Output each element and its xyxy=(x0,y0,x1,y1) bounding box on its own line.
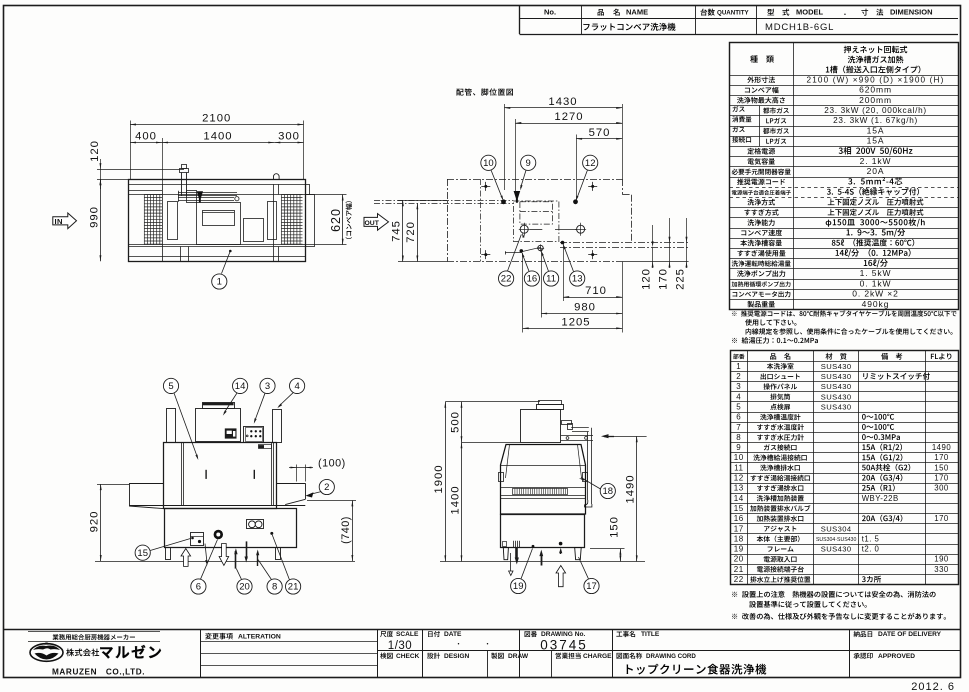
svg-text:TITLE: TITLE xyxy=(641,631,660,638)
svg-text:13: 13 xyxy=(734,484,744,493)
spec row kind label xyxy=(750,55,758,62)
IN arrow xyxy=(53,213,77,229)
company name xyxy=(66,649,99,657)
piping point 16 dot xyxy=(520,249,524,253)
piping point 13 dot xyxy=(561,241,565,245)
spec table gas sub column line xyxy=(759,106,761,147)
OUT arrow xyxy=(364,214,389,231)
svg-text:4: 4 xyxy=(294,381,299,392)
svg-text:7: 7 xyxy=(736,423,741,432)
plan view exit hatch xyxy=(281,195,302,245)
svg-text:17: 17 xyxy=(734,524,744,533)
svg-text:DESIGN: DESIGN xyxy=(444,653,470,660)
plan view left inner rect xyxy=(168,202,178,240)
side view balloon 18 xyxy=(600,483,615,498)
plan view section line left 400 xyxy=(162,184,164,261)
svg-text:16: 16 xyxy=(734,514,744,523)
side view lower body xyxy=(501,515,585,548)
svg-text:2: 2 xyxy=(324,482,329,493)
parts table rows xyxy=(731,371,959,373)
side view drain arrow down filled xyxy=(515,548,518,559)
alteration label xyxy=(205,633,233,640)
piping connection circle right xyxy=(577,225,585,233)
side view dim 1900 xyxy=(445,401,540,403)
side view dim 150 xyxy=(590,548,625,550)
plan view wash chamber inner rect xyxy=(203,211,235,226)
side view drain arrow down open xyxy=(510,553,512,571)
svg-text:IN: IN xyxy=(55,217,63,226)
front view door slot marks xyxy=(205,470,206,479)
dim 745 left xyxy=(398,200,447,202)
plan view right small rect xyxy=(244,219,264,242)
svg-text:10: 10 xyxy=(734,453,744,462)
svg-text:1490: 1490 xyxy=(625,474,637,503)
side view pipe run lower xyxy=(561,435,593,437)
alteration cell rows xyxy=(200,641,377,643)
svg-text:990: 990 xyxy=(89,206,101,228)
front view balloon 15 xyxy=(135,545,150,560)
svg-text:19: 19 xyxy=(513,581,524,592)
plan view left section band line xyxy=(129,190,163,192)
svg-text:300: 300 xyxy=(278,131,300,143)
design label xyxy=(427,653,440,659)
parts table column lines xyxy=(747,351,749,585)
svg-text:1270: 1270 xyxy=(554,111,583,123)
svg-text:710: 710 xyxy=(585,285,607,297)
svg-text:CHECK: CHECK xyxy=(396,653,420,660)
svg-text:23. 3kW (20, 000kcal/h): 23. 3kW (20, 000kcal/h) xyxy=(824,106,927,115)
spec gas group labels xyxy=(732,106,744,112)
piping connection link line xyxy=(530,229,543,231)
piping leg cross bottom-left xyxy=(481,254,490,256)
piping entrance strip chain lines xyxy=(374,200,513,202)
svg-text:20: 20 xyxy=(239,582,250,593)
svg-text:13: 13 xyxy=(572,274,583,285)
dim 990 left xyxy=(100,179,102,261)
side view hood top detail xyxy=(539,401,562,405)
svg-text:745: 745 xyxy=(391,220,403,242)
svg-text:15A: 15A xyxy=(867,125,885,135)
front view balloon 6 xyxy=(191,579,206,594)
plan view valve filled xyxy=(197,191,203,202)
side view dim 500 xyxy=(461,402,463,442)
svg-text:150: 150 xyxy=(608,516,620,538)
piping leg cross top-right xyxy=(588,186,597,188)
header label MODEL DIMENSION xyxy=(767,9,774,16)
svg-text:2100: 2100 xyxy=(202,113,231,125)
front view dim 920 xyxy=(97,484,129,486)
front view small label under panel xyxy=(259,445,272,449)
svg-text:DATE: DATE xyxy=(444,631,462,638)
balloon 10 xyxy=(481,155,496,170)
front view hood display xyxy=(225,428,237,438)
dim 1270 xyxy=(515,119,517,192)
front view dim 740 xyxy=(307,500,356,502)
svg-text:15A: 15A xyxy=(867,136,885,146)
front view right wing xyxy=(277,483,306,485)
plan view right side tab xyxy=(306,185,310,195)
svg-text:400: 400 xyxy=(135,131,157,143)
svg-text:8: 8 xyxy=(272,582,277,593)
svg-text:CHARGE: CHARGE xyxy=(583,653,612,660)
svg-text:170: 170 xyxy=(658,268,670,290)
svg-text:620mm: 620mm xyxy=(859,85,892,95)
front view balloon 2 xyxy=(319,479,334,494)
svg-text:21: 21 xyxy=(734,565,744,574)
svg-text:23. 3kW (1. 67kg/h): 23. 3kW (1. 67kg/h) xyxy=(833,116,918,125)
balloon 12 xyxy=(583,155,598,170)
balloon 16 xyxy=(524,271,539,286)
front view balloon 3 xyxy=(260,378,275,393)
side view dim 1490 xyxy=(614,436,647,438)
svg-text:170: 170 xyxy=(934,474,949,483)
dim 2100 xyxy=(130,121,132,180)
piping section chain line 400 xyxy=(480,179,482,262)
side view balloon 19 xyxy=(511,578,526,593)
parts table header labels xyxy=(733,354,744,359)
piping bottom connection line xyxy=(505,252,522,254)
svg-text:DIMENSION: DIMENSION xyxy=(890,8,933,17)
svg-text:MODEL: MODEL xyxy=(796,8,824,17)
svg-text:12: 12 xyxy=(585,158,596,169)
svg-text:DATE OF DELIVERY: DATE OF DELIVERY xyxy=(878,631,942,638)
svg-text:9: 9 xyxy=(736,443,741,452)
svg-text:t1. 5: t1. 5 xyxy=(862,534,880,543)
svg-text:2. 1kW: 2. 1kW xyxy=(860,156,892,166)
svg-text:10: 10 xyxy=(483,158,494,169)
svg-text:2100 (W) ×990 (D) ×1900 (H): 2100 (W) ×990 (D) ×1900 (H) xyxy=(807,75,945,84)
dim 720 left xyxy=(417,203,419,261)
svg-text:720: 720 xyxy=(405,221,417,243)
svg-text:1430: 1430 xyxy=(548,96,577,108)
balloon 9 xyxy=(521,155,536,170)
svg-text:2: 2 xyxy=(736,372,741,381)
svg-text:SUS430: SUS430 xyxy=(821,402,852,411)
spec table outer frame xyxy=(730,43,959,310)
title block inner verticals lower row xyxy=(487,651,489,678)
dim 710 xyxy=(563,244,565,302)
parts table notes xyxy=(732,591,936,598)
svg-text:14: 14 xyxy=(235,381,246,392)
svg-text:1900: 1900 xyxy=(433,464,445,493)
svg-text:1/30: 1/30 xyxy=(388,640,412,652)
plan view bottom band lines xyxy=(129,246,306,248)
front view hood cap xyxy=(203,403,235,409)
svg-text:20: 20 xyxy=(734,555,744,564)
front view left wing xyxy=(129,483,164,485)
dim 400 1400 300 xyxy=(162,138,164,185)
draw label xyxy=(491,653,503,659)
svg-text:1400: 1400 xyxy=(203,131,232,143)
plan view section line right 300 xyxy=(273,184,275,261)
check label xyxy=(380,653,393,659)
svg-text:120: 120 xyxy=(641,268,653,290)
side view ground chain line xyxy=(440,561,645,563)
front view left leg xyxy=(166,548,171,560)
front view balloon 14 xyxy=(233,378,248,393)
front view body upper xyxy=(164,443,277,509)
piping outline right step xyxy=(623,194,631,196)
svg-text:APPROVED: APPROVED xyxy=(878,653,915,660)
scale label and value xyxy=(380,631,393,637)
side view right foot xyxy=(575,548,582,560)
svg-text:5: 5 xyxy=(168,381,173,392)
dim 570 xyxy=(576,135,578,201)
plan view pipe end circle xyxy=(235,197,239,201)
svg-text:3: 3 xyxy=(736,382,741,391)
front view body inner wall lines xyxy=(181,443,183,506)
svg-text:12: 12 xyxy=(734,474,744,483)
front view table bottom line full width xyxy=(129,505,305,507)
svg-text:980: 980 xyxy=(574,302,596,314)
piping view title xyxy=(456,88,513,95)
plan view vent gooseneck xyxy=(274,174,280,179)
svg-text:570: 570 xyxy=(589,127,611,139)
svg-text:300: 300 xyxy=(934,484,949,493)
header label NAME xyxy=(598,9,604,16)
side view pipe bottom hook xyxy=(585,500,592,507)
side view balloon 17 xyxy=(584,578,599,593)
svg-text:MARUZEN CO.,LTD.: MARUZEN CO.,LTD. xyxy=(52,668,145,677)
piping leg cross bottom-right xyxy=(588,254,597,256)
piping outline rect xyxy=(447,179,623,181)
front view dim 100 xyxy=(296,465,298,482)
spec row labels xyxy=(747,76,775,83)
svg-text:・: ・ xyxy=(484,641,491,648)
svg-text:120: 120 xyxy=(89,140,101,162)
plan view top band line xyxy=(129,184,306,186)
balloon 11 xyxy=(544,271,559,286)
svg-text:22: 22 xyxy=(734,575,744,584)
svg-text:5: 5 xyxy=(736,402,741,411)
spec kind value 3 lines xyxy=(844,46,908,53)
svg-text:11: 11 xyxy=(546,274,556,285)
side view pipe step elbow xyxy=(562,421,572,425)
piping point 12 dot xyxy=(573,199,578,204)
balloon 22 xyxy=(499,271,514,286)
side view small latch box xyxy=(503,542,507,547)
svg-text:t2. 0: t2. 0 xyxy=(862,545,880,554)
plan view pipe manifold xyxy=(178,192,237,194)
svg-text:1: 1 xyxy=(736,362,741,371)
front view control panel xyxy=(244,427,264,443)
dim 120 left xyxy=(97,169,184,171)
parts table header row line xyxy=(731,361,959,363)
side view drain pipes left xyxy=(513,541,515,548)
title block top line xyxy=(3,629,960,631)
svg-text:No.: No. xyxy=(544,8,556,17)
plan view bottom band feet lines xyxy=(180,247,182,262)
title block verticals xyxy=(200,629,202,678)
piping tank rect chain xyxy=(513,201,559,242)
plan view conveyor strip bottom line xyxy=(129,244,315,246)
svg-text:225: 225 xyxy=(675,268,687,290)
svg-text:2012. 6: 2012. 6 xyxy=(911,681,955,692)
piping exit strip chain lines xyxy=(560,242,689,244)
svg-text:SUS430: SUS430 xyxy=(821,382,852,391)
svg-text:920: 920 xyxy=(88,511,100,533)
svg-text:WBY-22B: WBY-22B xyxy=(862,494,899,503)
front view arrows under machine xyxy=(181,549,191,567)
svg-text:150: 150 xyxy=(934,463,949,472)
side view arrow up filled xyxy=(541,554,543,566)
side view arrow up open xyxy=(556,566,566,587)
svg-text:19: 19 xyxy=(734,545,744,554)
plan view wash chamber rect xyxy=(197,203,241,245)
side view conveyor window band xyxy=(501,487,586,489)
svg-text:21: 21 xyxy=(288,582,299,593)
front view balloon 5 xyxy=(163,378,178,393)
front view hood box xyxy=(196,409,241,442)
maruzen logo emblem xyxy=(30,644,63,662)
svg-text:170: 170 xyxy=(934,453,949,462)
dim 620 conveyor width xyxy=(314,194,346,196)
svg-text:4: 4 xyxy=(736,392,741,401)
side view drain dot and arrow xyxy=(559,542,563,546)
maker slogan xyxy=(53,634,135,640)
svg-text:20A: 20A xyxy=(867,166,885,176)
balloon 13 xyxy=(570,271,585,286)
spec notes xyxy=(732,310,957,316)
dim 980 xyxy=(541,249,543,318)
drawing number label and value xyxy=(525,631,538,637)
svg-text:1400: 1400 xyxy=(449,485,461,514)
svg-text:18: 18 xyxy=(734,534,744,543)
svg-text:・: ・ xyxy=(455,641,462,648)
drawing name label and value xyxy=(617,653,643,659)
svg-text:620: 620 xyxy=(329,208,343,232)
front view ground line xyxy=(95,561,355,563)
svg-text:16: 16 xyxy=(527,274,538,285)
svg-text:14: 14 xyxy=(734,494,744,503)
svg-text:QUANTITY: QUANTITY xyxy=(717,10,749,17)
svg-text:500: 500 xyxy=(449,411,461,433)
side view left handle tab xyxy=(499,473,504,482)
svg-text:SUS430: SUS430 xyxy=(821,545,852,554)
svg-text:03745: 03745 xyxy=(540,638,588,653)
side view left foot xyxy=(503,548,508,560)
front view left duct xyxy=(167,409,176,443)
plan view exit extension box xyxy=(306,195,315,247)
side view hood box xyxy=(521,410,561,443)
title block middle line xyxy=(377,650,960,652)
front view balloon 21 xyxy=(286,579,301,594)
balloon 1 xyxy=(229,250,232,253)
svg-text:490kg: 490kg xyxy=(862,299,890,309)
dim 1430 xyxy=(504,104,506,190)
svg-text:3: 3 xyxy=(265,381,270,392)
side view vertical pipes xyxy=(587,432,589,500)
side view conveyor window hatch xyxy=(513,489,568,495)
front view balloon 20 xyxy=(237,579,252,594)
svg-text:15: 15 xyxy=(137,548,148,559)
front view right leg xyxy=(276,548,281,560)
side view pipe flanges xyxy=(566,437,569,440)
svg-text:(100): (100) xyxy=(318,458,346,470)
front view balloon 4 xyxy=(290,378,305,393)
piping connection circle 22 xyxy=(520,225,528,233)
svg-text:0. 1kW: 0. 1kW xyxy=(860,278,892,288)
front view round knob xyxy=(214,530,223,539)
side view body shoulder line xyxy=(501,465,586,467)
delivery label xyxy=(854,631,873,637)
svg-text:SUS304: SUS304 xyxy=(821,524,852,533)
piping point 11 symbol xyxy=(538,245,543,250)
svg-text:DRAW: DRAW xyxy=(508,653,529,660)
plan view outer body xyxy=(129,180,306,262)
svg-text:SUS304·SUS430: SUS304·SUS430 xyxy=(816,537,856,543)
svg-text:(740): (740) xyxy=(340,516,352,544)
spec table row lines xyxy=(730,75,959,77)
side view body top inner line xyxy=(506,445,510,479)
front view detergent box xyxy=(191,533,204,546)
side view body trapezoid xyxy=(501,445,586,515)
plan view right duct second line xyxy=(278,184,280,194)
svg-text:6: 6 xyxy=(736,413,741,422)
dim 1205 xyxy=(522,253,524,333)
parts table outer frame xyxy=(731,351,959,585)
piping leg cross top-left xyxy=(481,186,490,188)
svg-text:ALTERATION: ALTERATION xyxy=(238,634,281,641)
svg-text:SUS430: SUS430 xyxy=(821,362,852,371)
side view right handle tab xyxy=(583,473,588,482)
dim 120 170 225 verticals xyxy=(652,225,654,243)
side view pipe inlet arrow xyxy=(604,436,614,438)
svg-text:NAME: NAME xyxy=(626,8,648,17)
plan view gas pipe riser xyxy=(181,173,183,197)
svg-text:SUS430: SUS430 xyxy=(821,372,852,381)
svg-text:8: 8 xyxy=(736,433,741,442)
spec table label column line xyxy=(793,43,795,310)
piping gas valve filled xyxy=(514,191,521,203)
piping point 10 dot xyxy=(501,199,506,204)
plan view right inner rect xyxy=(268,202,277,240)
header label QUANTITY xyxy=(700,9,714,16)
svg-text:11: 11 xyxy=(734,463,743,472)
svg-text:1490: 1490 xyxy=(932,443,952,452)
svg-text:1205: 1205 xyxy=(561,316,590,328)
side view dim 1400 xyxy=(462,442,521,444)
svg-text:17: 17 xyxy=(586,581,597,592)
svg-text:190: 190 xyxy=(934,555,949,564)
svg-text:200mm: 200mm xyxy=(859,95,892,105)
svg-text:MDCH1B-6GL: MDCH1B-6GL xyxy=(765,22,834,33)
front view balloon 8 xyxy=(267,579,282,594)
svg-text:0. 2kW ×2: 0. 2kW ×2 xyxy=(852,289,899,299)
svg-text:18: 18 xyxy=(603,486,614,497)
header table grid xyxy=(520,34,959,36)
svg-text:330: 330 xyxy=(934,565,949,574)
plan view entrance hatch xyxy=(144,195,162,245)
front view twin gauges xyxy=(247,520,264,529)
front view right duct xyxy=(273,410,282,443)
svg-text:DRAWING CORD: DRAWING CORD xyxy=(646,653,696,660)
piping link line right xyxy=(555,229,577,231)
approved label xyxy=(854,653,873,659)
side view pipe run upper xyxy=(571,427,589,429)
svg-text:22: 22 xyxy=(501,274,512,285)
svg-text:OUT: OUT xyxy=(365,220,380,227)
svg-text:SUS430: SUS430 xyxy=(821,392,852,401)
plan view conveyor strip top line xyxy=(129,194,315,196)
product name value xyxy=(583,23,675,31)
svg-text:9: 9 xyxy=(526,158,531,169)
svg-text:15: 15 xyxy=(734,504,744,513)
date label xyxy=(428,631,440,637)
piping tank sub rect chain xyxy=(520,202,553,224)
front view lower body xyxy=(165,509,297,548)
svg-text:SCALE: SCALE xyxy=(396,631,419,638)
